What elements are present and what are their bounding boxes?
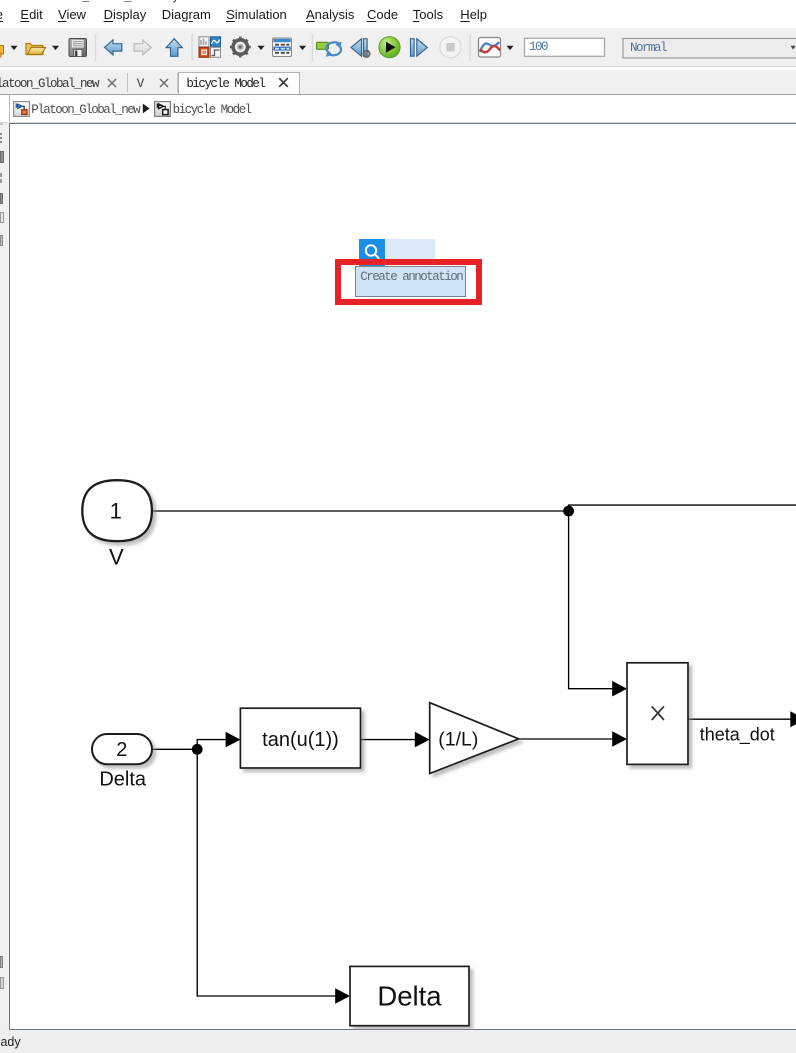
gain block (1/L): [430, 703, 519, 774]
svg-text:V: V: [109, 544, 124, 569]
arrowhead into product upper input: [612, 681, 627, 697]
stop button (disabled): [440, 37, 461, 58]
separator: [95, 34, 97, 61]
separator: [191, 34, 193, 61]
wire: junction jog up into tan block: [197, 740, 226, 750]
product block: [627, 663, 688, 765]
outport block Delta: [350, 966, 469, 1025]
gear icon: [230, 37, 251, 58]
wire: junction jog up and right branch to edge: [569, 505, 796, 511]
red annotation rectangle (screenshot markup): [335, 259, 482, 305]
step forward icon: [411, 39, 428, 56]
title bar text fragment (clipped at top): [40, 0, 300, 4]
dropdown arrow 2: [52, 46, 59, 50]
new model icon fragment (left edge): [0, 46, 4, 55]
svg-text:Delta: Delta: [99, 769, 147, 791]
wire: inport V to junction: [153, 510, 569, 512]
menu bar: [0, 0, 796, 28]
model configuration icon: [273, 38, 292, 57]
arrowhead into gain: [415, 732, 430, 748]
separator: [469, 34, 471, 61]
arrowhead at right edge (clipped): [790, 711, 796, 727]
zoom percent field: [525, 38, 605, 56]
wire: junction down to Delta block: [197, 749, 336, 996]
svg-text:tan(u(1)): tan(u(1)): [262, 729, 339, 751]
data inspector icon (red/blue curves): [479, 38, 501, 58]
open folder icon: [26, 44, 43, 55]
svg-text:2: 2: [116, 739, 127, 761]
svg-text:1: 1: [110, 499, 122, 524]
update diagram icon (green block + blue loop): [317, 42, 342, 58]
wire: gain to product lower input: [519, 738, 613, 740]
play button (green): [379, 37, 400, 58]
inport block 1 (V): [82, 480, 152, 541]
quick insert search button (blue with magnifier): [359, 239, 385, 266]
arrowhead into tan block: [226, 732, 241, 748]
svg-text:(1/L): (1/L): [438, 728, 478, 750]
junction node on V wire: [563, 506, 574, 517]
breadcrumb bar: [0, 95, 796, 123]
dropdown arrow 3: [258, 46, 265, 50]
step back icon: [351, 39, 370, 57]
wire: tan block to gain: [361, 739, 416, 741]
arrowhead into product lower input: [612, 731, 627, 747]
tab bar: [0, 70, 796, 95]
wire: product output to right edge: [688, 718, 791, 720]
arrowhead into Delta block: [335, 988, 350, 1004]
create annotation suggestion box: [355, 266, 466, 297]
wire: inport Delta to junction: [152, 748, 197, 750]
up arrow (blue): [166, 39, 182, 57]
junction node on Delta wire: [192, 744, 203, 755]
model icon 1: [13, 101, 30, 117]
breadcrumb separator arrow: [141, 103, 151, 114]
back arrow (blue): [105, 40, 122, 55]
multiply sign: [652, 706, 664, 720]
simulation mode dropdown: [623, 39, 796, 59]
dropdown arrow 5: [507, 46, 514, 50]
forward arrow (gray, disabled): [134, 40, 151, 55]
toolbar: [0, 28, 796, 67]
dropdown arrow 4: [299, 46, 306, 50]
svg-text:theta_dot: theta_dot: [700, 725, 775, 746]
model icon 2: [154, 101, 171, 117]
svg-text:Delta: Delta: [377, 981, 442, 1012]
inport block 2 (Delta): [92, 734, 152, 764]
fcn block tan(u(1)): [240, 708, 360, 768]
left strip (clipped palette icons): [0, 123, 9, 1031]
quick insert search field (light): [385, 239, 435, 259]
library browser icon (2x2 squares): [199, 37, 221, 58]
separator: [312, 34, 314, 61]
wire: junction down to product upper input: [569, 511, 613, 689]
dropdown arrow 1: [11, 46, 18, 50]
save (floppy) icon: [69, 39, 87, 57]
status bar: [0, 1030, 796, 1053]
